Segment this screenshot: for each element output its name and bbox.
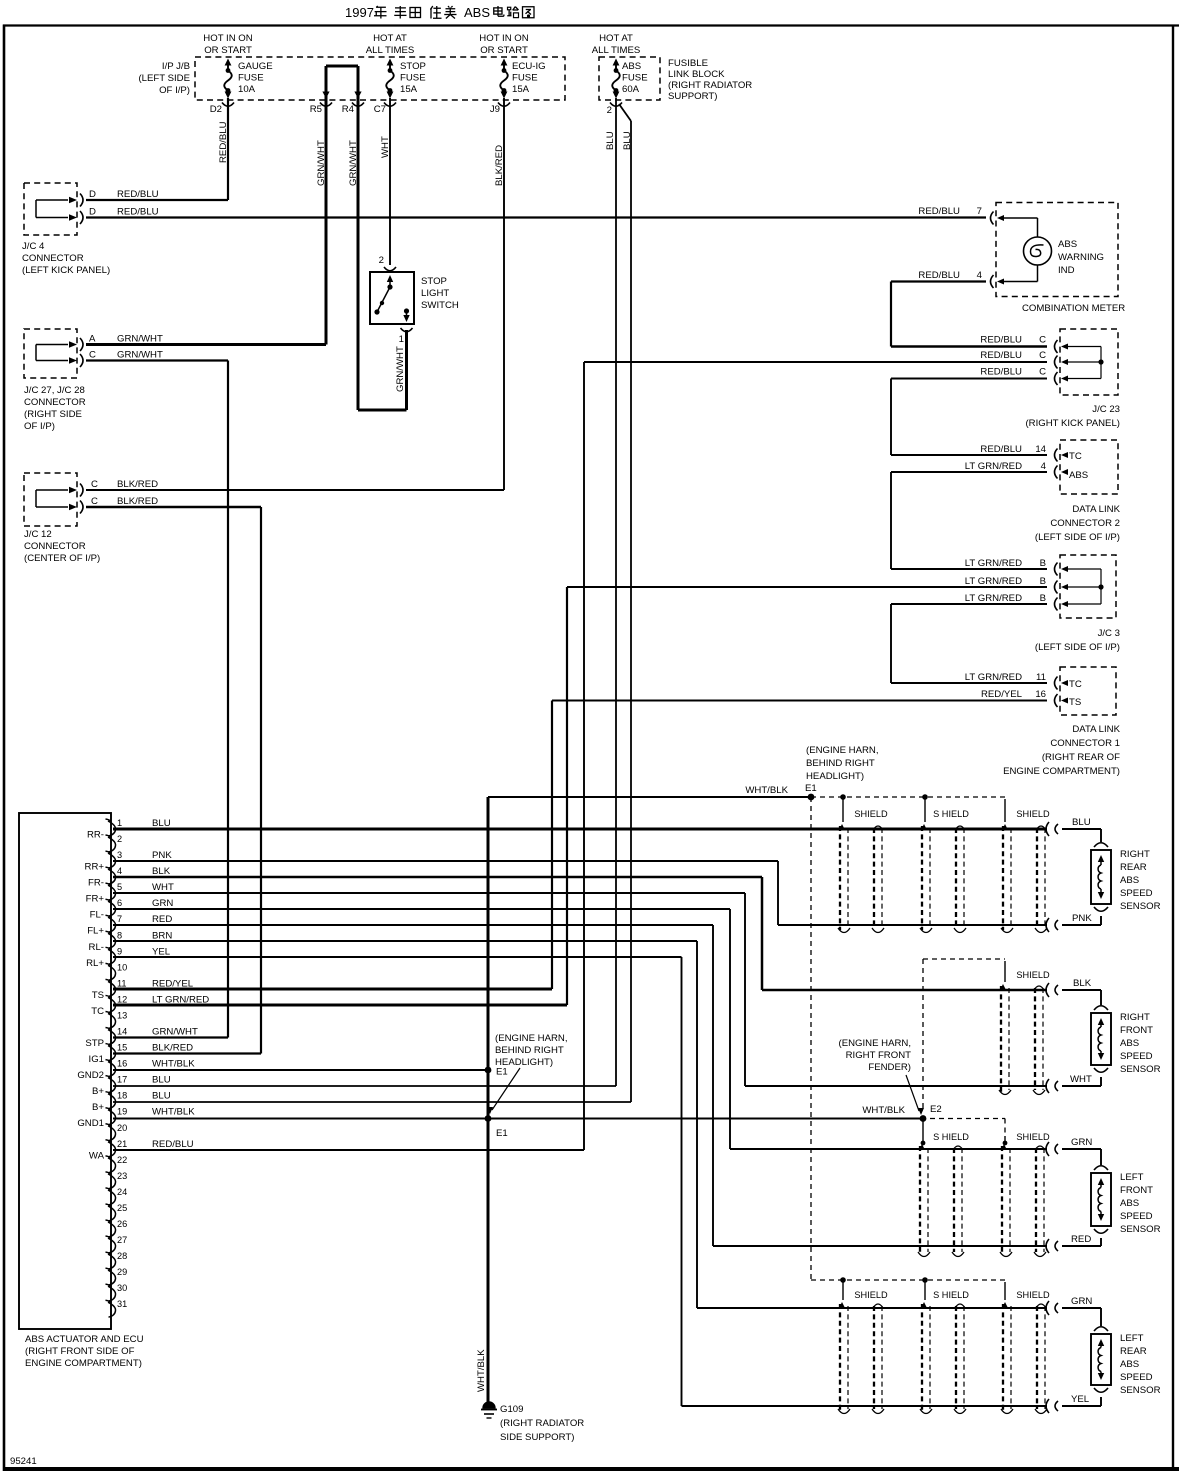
svg-text:(ENGINE HARN,: (ENGINE HARN,	[839, 1038, 912, 1049]
svg-text:ECU-IG: ECU-IG	[512, 61, 546, 72]
svg-text:B: B	[1040, 576, 1046, 587]
svg-text:B+: B+	[92, 1102, 104, 1113]
svg-text:WHT/BLK: WHT/BLK	[152, 1107, 195, 1118]
svg-text:TS: TS	[92, 990, 104, 1001]
svg-text:ABS: ABS	[1120, 1038, 1139, 1049]
svg-text:CONNECTOR: CONNECTOR	[22, 253, 84, 264]
svg-text:SENSOR: SENSOR	[1120, 901, 1161, 912]
svg-text:2: 2	[379, 255, 384, 266]
svg-text:J/C 27, J/C 28: J/C 27, J/C 28	[24, 385, 85, 396]
svg-text:BEHIND RIGHT: BEHIND RIGHT	[806, 758, 875, 769]
svg-text:FL+: FL+	[87, 926, 104, 937]
svg-text:15: 15	[117, 1043, 127, 1053]
svg-text:(RIGHT SIDE: (RIGHT SIDE	[24, 409, 82, 420]
svg-text:E1: E1	[805, 783, 817, 794]
svg-text:BLK/RED: BLK/RED	[117, 479, 158, 490]
svg-text:S HIELD: S HIELD	[933, 809, 969, 819]
svg-text:IG1: IG1	[89, 1054, 104, 1065]
svg-text:J/C 23: J/C 23	[1092, 404, 1120, 415]
svg-text:5: 5	[117, 882, 122, 892]
svg-text:CONNECTOR: CONNECTOR	[24, 397, 86, 408]
svg-text:ABS: ABS	[622, 61, 641, 72]
svg-text:SENSOR: SENSOR	[1120, 1064, 1161, 1075]
svg-text:B: B	[1040, 558, 1046, 569]
svg-text:19: 19	[117, 1107, 127, 1117]
svg-text:SWITCH: SWITCH	[421, 300, 459, 311]
svg-text:(LEFT SIDE OF I/P): (LEFT SIDE OF I/P)	[1035, 642, 1120, 653]
svg-text:C: C	[91, 496, 98, 507]
svg-text:SHIELD: SHIELD	[854, 809, 888, 819]
svg-text:16: 16	[117, 1059, 127, 1069]
svg-text:CONNECTOR 2: CONNECTOR 2	[1050, 518, 1120, 529]
svg-text:BRN: BRN	[152, 930, 172, 941]
svg-text:10: 10	[117, 962, 127, 972]
svg-text:RED/BLU: RED/BLU	[980, 367, 1022, 378]
svg-text:SENSOR: SENSOR	[1120, 1385, 1161, 1396]
svg-text:LIGHT: LIGHT	[421, 288, 449, 299]
svg-text:D: D	[89, 207, 96, 218]
svg-text:(LEFT KICK PANEL): (LEFT KICK PANEL)	[22, 265, 110, 276]
svg-text:I/P J/B: I/P J/B	[162, 61, 190, 72]
svg-text:30: 30	[117, 1283, 127, 1293]
svg-text:ABS: ABS	[1120, 875, 1139, 886]
svg-text:11: 11	[117, 978, 127, 988]
svg-text:LT GRN/RED: LT GRN/RED	[965, 593, 1022, 604]
svg-text:YEL: YEL	[1071, 1394, 1090, 1405]
svg-text:HOT IN ON: HOT IN ON	[479, 33, 528, 44]
svg-text:RED/BLU: RED/BLU	[152, 1139, 194, 1150]
svg-text:J/C 3: J/C 3	[1098, 628, 1120, 639]
svg-text:17: 17	[117, 1075, 127, 1085]
svg-text:J9: J9	[490, 104, 500, 115]
svg-text:9: 9	[117, 946, 122, 956]
svg-text:FR+: FR+	[86, 894, 105, 905]
svg-text:LT GRN/RED: LT GRN/RED	[965, 461, 1022, 472]
svg-text:GRN: GRN	[1071, 1296, 1092, 1307]
svg-text:RED/BLU: RED/BLU	[980, 335, 1022, 346]
svg-text:21: 21	[117, 1139, 127, 1149]
svg-text:TS: TS	[1069, 697, 1081, 708]
svg-text:ABS: ABS	[1058, 239, 1077, 250]
svg-text:LT GRN/RED: LT GRN/RED	[965, 672, 1022, 683]
svg-text:(RIGHT FRONT SIDE OF: (RIGHT FRONT SIDE OF	[25, 1346, 135, 1357]
svg-text:C7: C7	[374, 104, 386, 115]
svg-text:LT GRN/RED: LT GRN/RED	[965, 576, 1022, 587]
svg-text:31: 31	[117, 1299, 127, 1309]
svg-text:GRN/WHT: GRN/WHT	[152, 1027, 198, 1038]
svg-text:OR START: OR START	[480, 45, 528, 56]
svg-text:(LEFT SIDE OF I/P): (LEFT SIDE OF I/P)	[1035, 532, 1120, 543]
svg-text:WARNING: WARNING	[1058, 252, 1104, 263]
svg-text:STP: STP	[85, 1038, 104, 1049]
svg-text:DATA LINK: DATA LINK	[1072, 504, 1120, 515]
svg-text:TC: TC	[1069, 451, 1082, 462]
svg-text:RED/YEL: RED/YEL	[152, 978, 194, 989]
svg-text:SPEED: SPEED	[1120, 888, 1153, 899]
svg-text:RED/BLU: RED/BLU	[117, 207, 159, 218]
svg-text:7: 7	[117, 914, 122, 924]
svg-text:SIDE SUPPORT): SIDE SUPPORT)	[500, 1432, 574, 1443]
svg-text:YEL: YEL	[152, 946, 171, 957]
svg-text:BEHIND RIGHT: BEHIND RIGHT	[495, 1045, 564, 1056]
svg-text:C: C	[1039, 367, 1046, 378]
svg-text:23: 23	[117, 1171, 127, 1181]
svg-text:BLU: BLU	[152, 1075, 171, 1086]
svg-text:RED/BLU: RED/BLU	[980, 350, 1022, 361]
svg-text:FR-: FR-	[88, 878, 104, 889]
svg-text:(RIGHT RADIATOR: (RIGHT RADIATOR	[500, 1418, 584, 1429]
svg-text:RED/YEL: RED/YEL	[981, 689, 1023, 700]
svg-text:E1: E1	[496, 1067, 508, 1078]
svg-text:HEADLIGHT): HEADLIGHT)	[495, 1057, 553, 1068]
svg-text:E2: E2	[930, 1104, 942, 1115]
svg-text:26: 26	[117, 1219, 127, 1229]
svg-text:A: A	[89, 334, 96, 345]
svg-text:TC: TC	[1069, 679, 1082, 690]
svg-text:11: 11	[1036, 672, 1046, 683]
svg-text:22: 22	[117, 1155, 127, 1165]
svg-text:RED: RED	[152, 914, 172, 925]
svg-text:8: 8	[117, 930, 122, 940]
svg-text:RED/BLU: RED/BLU	[918, 206, 960, 217]
svg-text:(RIGHT KICK PANEL): (RIGHT KICK PANEL)	[1025, 418, 1120, 429]
svg-text:14: 14	[1035, 444, 1046, 455]
svg-text:ALL TIMES: ALL TIMES	[366, 45, 415, 56]
svg-text:WHT: WHT	[1070, 1074, 1092, 1085]
svg-text:SPEED: SPEED	[1120, 1211, 1153, 1222]
svg-text:ALL TIMES: ALL TIMES	[592, 45, 641, 56]
svg-text:GND2: GND2	[77, 1070, 104, 1081]
svg-text:J/C 12: J/C 12	[24, 529, 52, 540]
svg-text:WHT/BLK: WHT/BLK	[152, 1059, 195, 1070]
svg-text:LINK BLOCK: LINK BLOCK	[668, 69, 725, 80]
svg-text:HOT AT: HOT AT	[373, 33, 407, 44]
svg-text:1: 1	[117, 818, 122, 828]
svg-text:COMBINATION METER: COMBINATION METER	[1022, 303, 1125, 314]
svg-text:29: 29	[117, 1267, 127, 1277]
svg-text:LT GRN/RED: LT GRN/RED	[965, 558, 1022, 569]
svg-text:ABS: ABS	[1120, 1198, 1139, 1209]
svg-text:SHIELD: SHIELD	[1016, 809, 1050, 819]
svg-text:SPEED: SPEED	[1120, 1372, 1153, 1383]
svg-text:WA: WA	[89, 1150, 105, 1161]
svg-text:FUSE: FUSE	[400, 73, 426, 84]
svg-text:1: 1	[399, 334, 404, 345]
svg-text:GRN/WHT: GRN/WHT	[117, 350, 163, 361]
svg-text:12: 12	[117, 994, 127, 1004]
svg-text:4: 4	[117, 866, 122, 876]
svg-text:ABS: ABS	[1120, 1359, 1139, 1370]
svg-text:CONNECTOR 1: CONNECTOR 1	[1050, 738, 1120, 749]
svg-text:E1: E1	[496, 1128, 508, 1139]
svg-text:REAR: REAR	[1120, 1346, 1147, 1357]
svg-text:STOP: STOP	[421, 276, 447, 287]
svg-text:RIGHT: RIGHT	[1120, 849, 1150, 860]
svg-text:15A: 15A	[400, 84, 418, 95]
svg-text:SHIELD: SHIELD	[1016, 1132, 1050, 1142]
svg-text:LEFT: LEFT	[1120, 1172, 1144, 1183]
svg-text:(ENGINE HARN,: (ENGINE HARN,	[806, 745, 879, 756]
svg-text:D2: D2	[210, 104, 222, 115]
svg-text:(CENTER OF I/P): (CENTER OF I/P)	[24, 553, 100, 564]
svg-text:FENDER): FENDER)	[868, 1062, 911, 1073]
svg-text:C: C	[91, 479, 98, 490]
svg-text:RED/BLU: RED/BLU	[980, 444, 1022, 455]
svg-text:HEADLIGHT): HEADLIGHT)	[806, 771, 864, 782]
svg-text:B+: B+	[92, 1086, 104, 1097]
svg-text:FUSE: FUSE	[512, 73, 538, 84]
svg-text:2: 2	[117, 834, 122, 844]
svg-text:25: 25	[117, 1203, 127, 1213]
svg-text:RL-: RL-	[89, 942, 104, 953]
svg-text:4: 4	[977, 270, 983, 281]
svg-text:BLU: BLU	[152, 1091, 171, 1102]
svg-text:REAR: REAR	[1120, 862, 1147, 873]
svg-text:LT GRN/RED: LT GRN/RED	[152, 994, 209, 1005]
svg-text:7: 7	[977, 206, 982, 217]
svg-text:(LEFT SIDE: (LEFT SIDE	[138, 73, 190, 84]
svg-text:10A: 10A	[238, 84, 256, 95]
svg-text:RIGHT: RIGHT	[1120, 1012, 1150, 1023]
svg-text:SUPPORT): SUPPORT)	[668, 91, 717, 102]
svg-text:FRONT: FRONT	[1120, 1025, 1153, 1036]
svg-text:D: D	[89, 189, 96, 200]
svg-text:SHIELD: SHIELD	[1016, 970, 1050, 980]
svg-text:CONNECTOR: CONNECTOR	[24, 541, 86, 552]
svg-text:OF I/P): OF I/P)	[159, 85, 190, 96]
svg-text:ABS: ABS	[1069, 470, 1088, 481]
svg-text:C: C	[89, 350, 96, 361]
svg-text:95241: 95241	[10, 1456, 37, 1467]
svg-text:1997: 1997	[345, 5, 374, 20]
svg-text:BLU: BLU	[1072, 817, 1091, 828]
svg-text:R5: R5	[310, 104, 322, 115]
svg-text:RED: RED	[1071, 1234, 1091, 1245]
svg-text:GND1: GND1	[77, 1118, 104, 1129]
svg-text:FL-: FL-	[90, 910, 104, 921]
svg-text:FUSE: FUSE	[622, 73, 648, 84]
svg-text:BLK/RED: BLK/RED	[117, 496, 158, 507]
svg-text:C: C	[1039, 350, 1046, 361]
svg-text:2: 2	[607, 105, 612, 116]
svg-text:B: B	[1040, 593, 1046, 604]
svg-text:RR+: RR+	[85, 862, 105, 873]
svg-text:15A: 15A	[512, 84, 530, 95]
svg-text:SHIELD: SHIELD	[1016, 1290, 1050, 1300]
svg-text:16: 16	[1035, 689, 1046, 700]
svg-text:60A: 60A	[622, 84, 640, 95]
svg-text:RL+: RL+	[86, 958, 104, 969]
svg-text:HOT AT: HOT AT	[599, 33, 633, 44]
svg-text:ABS ACTUATOR AND ECU: ABS ACTUATOR AND ECU	[25, 1334, 144, 1345]
svg-text:STOP: STOP	[400, 61, 426, 72]
svg-text:WHT: WHT	[152, 882, 174, 893]
svg-text:BLU: BLU	[152, 818, 171, 829]
svg-text:SPEED: SPEED	[1120, 1051, 1153, 1062]
svg-text:TC: TC	[91, 1006, 104, 1017]
svg-text:BLK: BLK	[1073, 978, 1092, 989]
svg-text:GRN: GRN	[1071, 1137, 1092, 1148]
svg-text:(RIGHT REAR OF: (RIGHT REAR OF	[1042, 752, 1120, 763]
svg-text:(ENGINE HARN,: (ENGINE HARN,	[495, 1033, 568, 1044]
svg-text:OF I/P): OF I/P)	[24, 421, 55, 432]
svg-text:HOT IN ON: HOT IN ON	[203, 33, 252, 44]
svg-text:G109: G109	[500, 1404, 523, 1415]
svg-text:SHIELD: SHIELD	[854, 1290, 888, 1300]
svg-text:RED/BLU: RED/BLU	[117, 189, 159, 200]
svg-text:PNK: PNK	[1072, 913, 1092, 924]
svg-text:DATA LINK: DATA LINK	[1072, 724, 1120, 735]
svg-text:ABS: ABS	[464, 5, 490, 20]
svg-text:PNK: PNK	[152, 850, 172, 861]
svg-text:RED/BLU: RED/BLU	[918, 270, 960, 281]
svg-text:SENSOR: SENSOR	[1120, 1224, 1161, 1235]
svg-text:20: 20	[117, 1123, 127, 1133]
svg-text:C: C	[1039, 335, 1046, 346]
svg-text:28: 28	[117, 1251, 127, 1261]
svg-text:BLK: BLK	[152, 866, 171, 877]
svg-text:18: 18	[117, 1091, 127, 1101]
svg-text:4: 4	[1041, 461, 1047, 472]
svg-text:BLU: BLU	[605, 131, 616, 150]
svg-text:24: 24	[117, 1187, 127, 1197]
svg-text:OR START: OR START	[204, 45, 252, 56]
svg-text:IND: IND	[1058, 265, 1075, 276]
svg-text:GRN: GRN	[152, 898, 173, 909]
svg-text:GAUGE: GAUGE	[238, 61, 273, 72]
svg-text:S HIELD: S HIELD	[933, 1290, 969, 1300]
svg-text:ENGINE COMPARTMENT): ENGINE COMPARTMENT)	[25, 1358, 142, 1369]
svg-text:FRONT: FRONT	[1120, 1185, 1153, 1196]
svg-text:R4: R4	[342, 104, 355, 115]
svg-text:J/C 4: J/C 4	[22, 241, 45, 252]
svg-text:S HIELD: S HIELD	[933, 1132, 969, 1142]
svg-text:27: 27	[117, 1235, 127, 1245]
svg-text:WHT/BLK: WHT/BLK	[862, 1105, 905, 1116]
svg-text:ENGINE COMPARTMENT): ENGINE COMPARTMENT)	[1003, 766, 1120, 777]
svg-text:13: 13	[117, 1010, 127, 1020]
svg-text:BLK/RED: BLK/RED	[152, 1043, 193, 1054]
svg-text:FUSE: FUSE	[238, 73, 264, 84]
svg-text:(RIGHT RADIATOR: (RIGHT RADIATOR	[668, 80, 752, 91]
svg-text:WHT/BLK: WHT/BLK	[745, 785, 788, 796]
svg-text:FUSIBLE: FUSIBLE	[668, 58, 708, 69]
svg-text:GRN/WHT: GRN/WHT	[395, 346, 406, 392]
svg-text:LEFT: LEFT	[1120, 1333, 1144, 1344]
svg-text:WHT/BLK: WHT/BLK	[476, 1349, 487, 1392]
svg-text:14: 14	[117, 1027, 127, 1037]
svg-text:RR-: RR-	[87, 830, 104, 841]
svg-text:GRN/WHT: GRN/WHT	[117, 334, 163, 345]
svg-text:RIGHT FRONT: RIGHT FRONT	[846, 1050, 912, 1061]
svg-text:6: 6	[117, 898, 122, 908]
svg-text:3: 3	[117, 850, 122, 860]
